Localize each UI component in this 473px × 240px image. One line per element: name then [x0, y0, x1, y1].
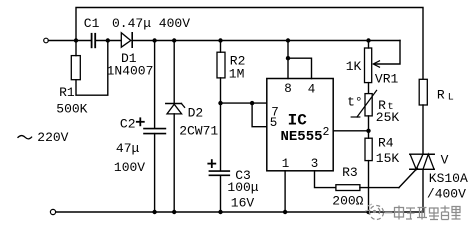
- watermark glyph 4: [429, 208, 439, 220]
- wire Rt to node: [368, 116, 370, 131]
- node junction at R1 top: [74, 38, 78, 42]
- svg-text:NE555: NE555: [280, 129, 322, 145]
- label Rt: [378, 98, 394, 113]
- svg-text:t°: t°: [347, 95, 363, 110]
- node junction D2 top: [172, 38, 176, 42]
- svg-text:0.47μ 400V: 0.47μ 400V: [112, 16, 190, 31]
- capacitor C1: [92, 34, 96, 48]
- svg-text:4: 4: [308, 82, 316, 96]
- svg-text:2CW71: 2CW71: [179, 123, 218, 138]
- svg-text:200Ω: 200Ω: [332, 194, 363, 209]
- wire D2 to bottom rail: [173, 114, 175, 212]
- bottom rail wire: [56, 211, 423, 213]
- resistor R2: [217, 41, 225, 104]
- wire triac to bottom rail: [422, 169, 424, 212]
- svg-text:2: 2: [322, 126, 329, 139]
- svg-text:1N4007: 1N4007: [107, 64, 154, 79]
- node pin8/pin4: [286, 56, 290, 60]
- label C2 value 100V: [114, 160, 145, 175]
- node junction pin8 supply: [286, 38, 290, 42]
- svg-text:1M: 1M: [229, 67, 245, 82]
- label C3: [235, 168, 251, 183]
- node pin5 branch: [250, 101, 254, 105]
- watermark logo circle: [365, 204, 384, 220]
- svg-text:16V: 16V: [231, 196, 255, 211]
- svg-text:47μ: 47μ: [116, 141, 140, 156]
- label R1: [59, 85, 75, 100]
- watermark glyph 1: [395, 206, 404, 220]
- svg-text:C2: C2: [120, 116, 136, 131]
- wire D2 drop: [173, 41, 175, 104]
- node junction C2 top: [152, 38, 156, 42]
- svg-text:1K: 1K: [346, 59, 362, 74]
- node pin1 bottom: [283, 210, 287, 214]
- svg-text:1: 1: [282, 157, 290, 171]
- svg-text:C1: C1: [84, 16, 100, 31]
- wire D1 to VR1: [132, 40, 400, 42]
- output terminal bottom: [50, 209, 55, 214]
- label 25K: [376, 110, 400, 125]
- label R2 value 1M: [229, 67, 245, 82]
- resistor R1: [71, 41, 108, 96]
- pin 2 label: [322, 126, 329, 139]
- wire top rail: [76, 8, 423, 80]
- wire C3 drop: [220, 103, 222, 170]
- node junction R2 top: [218, 38, 222, 42]
- pin 7 label: [271, 106, 279, 120]
- label D2: [188, 106, 204, 121]
- svg-text:25K: 25K: [376, 110, 400, 125]
- wire C2 to bottom rail: [154, 134, 156, 212]
- watermark glyph 2: [406, 208, 415, 219]
- svg-text:R4: R4: [378, 136, 394, 151]
- svg-text:KS10A: KS10A: [429, 171, 468, 186]
- svg-text:220V: 220V: [37, 130, 68, 145]
- label R3: [342, 165, 358, 180]
- label R4: [378, 136, 394, 151]
- svg-text:IC: IC: [288, 112, 308, 130]
- capacitor C3: [209, 171, 229, 175]
- C3 plus sign: [208, 160, 215, 167]
- svg-text:15K: 15K: [376, 151, 400, 166]
- svg-text:500K: 500K: [56, 102, 87, 117]
- label /400V: [427, 187, 466, 202]
- wire pin5 branch: [252, 103, 267, 127]
- pin 4 label: [308, 82, 316, 96]
- watermark glyph 6: [452, 207, 461, 220]
- node junction VR1 top: [366, 38, 370, 42]
- watermark glyph 3: [417, 208, 427, 220]
- label t degree: [347, 95, 363, 110]
- label R3 value 200ohm: [332, 194, 363, 209]
- svg-text:100V: 100V: [114, 160, 145, 175]
- wire C2 drop: [154, 41, 156, 129]
- wire pin 4: [288, 58, 312, 78]
- pin 1 label: [282, 157, 290, 171]
- node R2/C3/pin7: [218, 101, 222, 105]
- watermark glyph 5: [441, 206, 450, 220]
- label KS10A: [429, 171, 468, 186]
- label RL: [437, 88, 454, 104]
- label D2 value 2CW71: [179, 123, 218, 138]
- diode D1: [121, 33, 132, 47]
- svg-text:V: V: [441, 153, 449, 168]
- svg-text:L: L: [448, 93, 454, 104]
- label V triac: [441, 153, 449, 168]
- wire pin 3: [315, 171, 336, 188]
- wire C3 to bottom rail: [220, 175, 222, 212]
- label VR1: [375, 72, 399, 87]
- label R1 value 500K: [56, 102, 87, 117]
- wire main top line left: [48, 40, 91, 42]
- label C2 value 47u: [116, 141, 140, 156]
- node C2 bottom: [152, 210, 156, 214]
- label D1: [121, 51, 137, 66]
- svg-text:R3: R3: [342, 165, 358, 180]
- capacitor C2: [144, 129, 165, 134]
- node C3 bottom: [218, 210, 222, 214]
- label R2: [230, 54, 246, 69]
- zener diode D2: [166, 104, 185, 114]
- C2 plus sign: [137, 118, 144, 125]
- resistor R3: [336, 185, 399, 191]
- thermistor Rt: [351, 90, 376, 117]
- pin 3 label: [311, 157, 319, 171]
- svg-text:100μ: 100μ: [227, 180, 258, 195]
- svg-text:/400V: /400V: [427, 187, 466, 202]
- label NE555: [280, 129, 322, 145]
- svg-text:VR1: VR1: [375, 72, 399, 87]
- svg-text:R1: R1: [59, 85, 75, 100]
- label 1K: [346, 59, 362, 74]
- potentiometer VR1: [365, 41, 372, 94]
- label AC source ~220V: [18, 130, 69, 145]
- resistor R4: [365, 131, 372, 212]
- label 15K: [376, 151, 400, 166]
- label C3 value 16V: [231, 196, 255, 211]
- triac V: [410, 154, 434, 169]
- svg-text:3: 3: [311, 157, 319, 171]
- resistor RL: [419, 79, 427, 154]
- op-amp U1 IC NE555 box: [267, 79, 333, 171]
- svg-text:R: R: [437, 88, 445, 103]
- svg-text:5: 5: [270, 116, 278, 130]
- label D1 value 1N4007: [107, 64, 154, 79]
- node R4 bottom: [366, 210, 370, 214]
- pin 8 label: [284, 82, 292, 96]
- label IC: [288, 112, 308, 130]
- svg-text:8: 8: [284, 82, 292, 96]
- wire pin 2: [333, 130, 368, 132]
- node pin2/Rt/R4: [366, 129, 370, 133]
- label C1 value 0.47u 400V: [112, 16, 190, 31]
- wire C1 to D1: [95, 40, 121, 42]
- svg-text:D2: D2: [188, 106, 204, 121]
- label C2: [120, 116, 136, 131]
- wire pin 1: [284, 171, 286, 212]
- pin 5 label: [270, 116, 278, 130]
- input terminal top: [44, 38, 49, 43]
- node junction C1/D1/R1: [106, 38, 110, 42]
- label C1: [84, 16, 100, 31]
- label C3 value 100u: [227, 180, 258, 195]
- VR1 wiper arrow: [373, 41, 400, 68]
- triac gate wire: [399, 168, 417, 188]
- wire node to pin 7: [221, 102, 267, 104]
- watermark dash: [385, 212, 393, 214]
- node D2 bottom: [172, 210, 176, 214]
- wire pin 8: [287, 41, 289, 79]
